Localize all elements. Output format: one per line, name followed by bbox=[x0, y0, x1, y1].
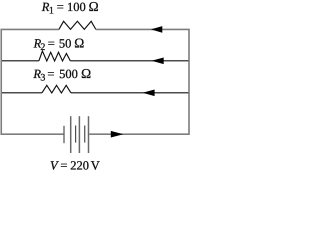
current arrow I1 on top wire (pointing left) bbox=[151, 26, 162, 33]
resistor R3 bbox=[42, 85, 71, 93]
wire top-right: from R1 right lead, right edge of loop down to battery bbox=[89, 29, 189, 134]
current arrow I on bottom wire (pointing right) bbox=[111, 131, 124, 138]
wire top-left: from R1 left lead, left edge of loop down to battery bbox=[1, 29, 63, 134]
wire R3 branch right segment bbox=[71, 92, 188, 94]
battery V plate: long positive plate (cell 1) bbox=[70, 116, 72, 153]
current arrow I3 on R3 branch (pointing left) bbox=[143, 90, 155, 97]
wire R2 branch left segment bbox=[2, 60, 39, 62]
battery V plate: long positive plate (cell 3) bbox=[88, 116, 90, 153]
wire R3 branch left segment bbox=[2, 92, 42, 94]
current arrow I2 on R2 branch (pointing left) bbox=[152, 58, 164, 65]
wire R2 branch right segment bbox=[70, 60, 188, 62]
resistor R1 bbox=[59, 21, 96, 29]
battery V plate: short negative plate (outer left) bbox=[63, 126, 65, 143]
battery V plate: short negative plate (cell 3) bbox=[84, 126, 86, 143]
resistor R2 bbox=[39, 51, 70, 61]
svg-text:R2=50Ω: R2=50Ω bbox=[33, 35, 85, 53]
battery V plate: long positive plate (cell 2) bbox=[78, 116, 80, 153]
svg-text:V=220V: V=220V bbox=[50, 159, 100, 173]
battery V plate: short negative plate (cell 2) bbox=[75, 126, 77, 143]
